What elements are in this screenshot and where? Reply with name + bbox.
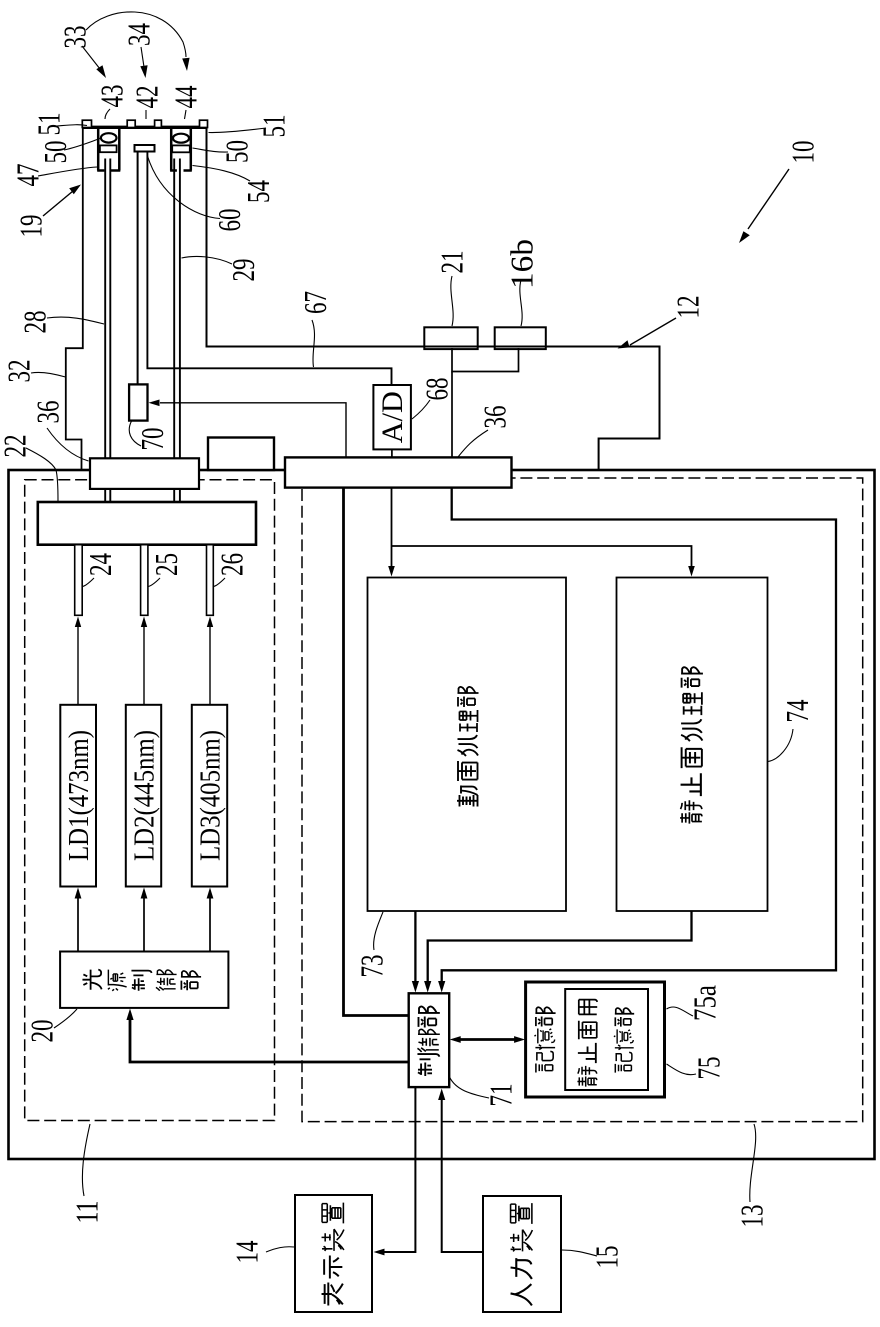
leader 74	[768, 729, 793, 762]
leader 42	[145, 110, 147, 119]
svg-text:44: 44	[168, 86, 204, 109]
leader 33 long arc	[86, 12, 186, 57]
wire: image sensor cable left line (sensor 60 to element 70)	[137, 152, 139, 386]
leader 26	[214, 578, 226, 587]
svg-text:51: 51	[256, 115, 292, 138]
tip face tab between 42 and 44	[155, 120, 162, 127]
fiber stub 25	[141, 545, 148, 616]
left illumination unit 47 walls	[97, 129, 120, 171]
box 36 left (light guide receiver)	[90, 458, 199, 489]
leader 22	[26, 448, 58, 501]
leader 13	[750, 1124, 756, 1202]
leader 14	[266, 1247, 294, 1252]
svg-text:71: 71	[483, 1084, 519, 1107]
svg-text:47: 47	[10, 164, 46, 187]
svg-text:19: 19	[13, 215, 49, 238]
wire: LD3 to fiber 26 (arrow up)	[209, 622, 211, 705]
wire: still processor 74 to controller 71 (arrow down)	[428, 911, 692, 987]
wire: input device 15 to controller 71 (arrow up)	[442, 1094, 483, 1252]
box 75a still image memory	[565, 989, 648, 1090]
svg-text:32: 32	[1, 360, 37, 383]
leader 60	[148, 156, 221, 219]
tip distal end face	[83, 126, 207, 129]
arrowhead 33 long	[182, 58, 189, 71]
wire: controller 71 to light source control 20 (arrow up)	[130, 1013, 409, 1062]
svg-text:14: 14	[229, 1241, 265, 1264]
leader 47	[38, 167, 97, 176]
text 記憶部 in box 75	[534, 1007, 555, 1072]
outer housing box (light source + processor)	[9, 470, 875, 1159]
svg-text:28: 28	[17, 311, 53, 334]
leader 29	[182, 256, 233, 264]
leader 75	[667, 1064, 697, 1075]
box 21 socket	[424, 327, 477, 349]
text 制御部 in box 71	[417, 1006, 439, 1075]
box 16b socket	[495, 327, 546, 349]
box 70 (detection element)	[129, 384, 147, 420]
box 22 (light combiner)	[38, 502, 256, 545]
wire: left light-guide fiber 28 (tip to combiner 22)	[105, 159, 110, 503]
wire: controller 71 to display 14 (arrow left)	[379, 1087, 415, 1252]
text 記憶部 in box 75a	[614, 1008, 634, 1073]
phosphor 54 left	[100, 145, 117, 152]
svg-text:68: 68	[419, 378, 455, 401]
svg-text:74: 74	[779, 700, 815, 723]
phosphor 54 right	[172, 145, 190, 152]
leader 50 right	[193, 148, 229, 152]
leader 11	[82, 1124, 90, 1196]
text 静止画処理部 in box 74	[680, 667, 703, 823]
tip face tab left corner	[82, 120, 91, 127]
svg-text:LD2(445nm): LD2(445nm)	[129, 730, 161, 861]
box LD1	[60, 705, 96, 887]
svg-text:20: 20	[24, 1020, 60, 1043]
svg-text:24: 24	[82, 553, 118, 576]
leader 21	[451, 276, 453, 326]
lens 50 right (ellipse)	[173, 134, 189, 143]
svg-text:LD1(473nm): LD1(473nm)	[63, 730, 95, 861]
box 68 A/D converter	[373, 385, 411, 449]
box 71 controller	[409, 993, 450, 1087]
leader 51 left	[57, 125, 87, 126]
box LD2	[126, 705, 161, 887]
arrowhead 19	[69, 185, 81, 195]
svg-text:A/D: A/D	[376, 391, 409, 443]
arrowhead 12	[618, 340, 630, 348]
box 15 input device	[483, 1196, 561, 1312]
wire: LD2 to fiber 25 (arrow up)	[143, 622, 145, 705]
svg-text:67: 67	[297, 291, 333, 314]
svg-text:51: 51	[31, 113, 67, 136]
box 12 connector housing outline	[207, 122, 660, 471]
wire: signal line 67 (sensor cable to A/D)	[147, 152, 391, 386]
leader 36 left	[47, 428, 89, 461]
text 入力装置 in box 15	[510, 1203, 532, 1305]
text 動画処理部 in box 73	[457, 687, 479, 807]
tip face tab between 43 and 42	[127, 120, 135, 127]
wire: video processor 73 to controller 71 (arrow down)	[414, 911, 416, 987]
svg-text:11: 11	[69, 1201, 105, 1224]
box 14 display device	[295, 1195, 372, 1312]
leader 50 left	[64, 139, 100, 151]
leader 73	[374, 912, 383, 950]
svg-text:12: 12	[670, 296, 706, 319]
leader 16b	[520, 280, 522, 326]
leader 51 right	[209, 128, 267, 133]
leader 43	[105, 109, 110, 119]
leader 33 short arrow	[82, 46, 100, 69]
fiber stub 24	[75, 545, 83, 616]
box LD3	[192, 705, 227, 887]
leader 25	[148, 578, 160, 587]
leader 19 arrow line	[43, 191, 73, 216]
svg-text:25: 25	[148, 553, 184, 576]
leader 67	[312, 320, 315, 367]
svg-text:22: 22	[0, 435, 33, 458]
wire: light source control 20 to LD2 (arrow up)	[143, 893, 145, 952]
svg-text:34: 34	[121, 23, 157, 46]
svg-text:15: 15	[589, 1246, 625, 1269]
svg-text:16b: 16b	[504, 239, 540, 289]
leader 28	[47, 317, 104, 324]
svg-text:10: 10	[785, 141, 821, 164]
wire: socket 21 line down to box 36	[451, 372, 453, 459]
leader 10 arrow line	[748, 169, 789, 229]
leader 54	[193, 166, 251, 182]
svg-text:29: 29	[225, 259, 261, 282]
right illumination unit walls	[170, 129, 192, 171]
leader 71	[450, 1077, 490, 1098]
leader 68	[412, 400, 430, 419]
wire: A/D output to receiver box 36	[391, 449, 393, 458]
lens 50 left (ellipse)	[101, 133, 117, 142]
box 20 light source control	[60, 952, 228, 1008]
svg-text:75: 75	[691, 1057, 727, 1080]
text 表示装置 in box 14	[322, 1203, 344, 1306]
wire: box 36 to element 70 (arrow left)	[160, 403, 346, 458]
wire: branch to still image processor 74 (arrow down)	[392, 546, 692, 571]
svg-text:70: 70	[134, 428, 170, 451]
leader 70	[129, 421, 141, 446]
leader 20	[54, 1009, 77, 1028]
leader 15	[562, 1250, 597, 1256]
scope connector block on housing	[208, 438, 274, 471]
svg-text:21: 21	[434, 251, 470, 274]
wire: box 36 to video processor 73 (arrow down)	[391, 487, 393, 571]
dashed box 13 (processor unit)	[302, 478, 863, 1122]
wire: controller 71 and memory 75 double arrow	[455, 1038, 520, 1041]
svg-text:36: 36	[30, 401, 66, 424]
wire: light source control 20 to LD1 (arrow up)	[77, 893, 79, 952]
leader 24	[83, 578, 95, 587]
box 75 memory	[526, 982, 665, 1097]
tip face tab right corner	[200, 120, 208, 127]
arrowhead 34	[140, 65, 147, 78]
leader 12 arrow line	[630, 318, 676, 345]
svg-text:73: 73	[354, 955, 390, 978]
svg-text:54: 54	[240, 180, 276, 203]
svg-text:LD3(405nm): LD3(405nm)	[195, 730, 227, 861]
dashed box 11 (light source unit)	[25, 480, 275, 1121]
fiber stub 26	[207, 545, 214, 616]
leader 32	[31, 372, 66, 377]
leader 34	[141, 47, 144, 67]
box 36 right (signal receiver)	[285, 457, 512, 487]
svg-text:50: 50	[37, 141, 73, 164]
svg-text:43: 43	[94, 85, 130, 108]
wire: light source control 20 to LD3 (arrow up)	[209, 893, 211, 952]
wire: box 36 right-side loop to controller 71 (arrow down)	[442, 487, 836, 987]
svg-text:42: 42	[129, 86, 165, 109]
leader 75a	[667, 1007, 694, 1016]
wire: connector notch under sockets 21/16b	[452, 348, 519, 372]
wire: LD1 to fiber 24 (arrow up)	[77, 622, 79, 705]
svg-text:60: 60	[211, 209, 247, 232]
wire: right light-guide fiber 29 (tip to combiner 22)	[174, 159, 180, 503]
scope left wall with grip step 32	[66, 121, 83, 470]
svg-text:36: 36	[477, 406, 513, 429]
leader 44	[185, 110, 187, 119]
box 73 video processing	[368, 578, 567, 912]
wire: box 36 left drop to controller 71 left side	[344, 487, 409, 1016]
svg-text:13: 13	[734, 1205, 770, 1228]
text 光源制御部 in box 20	[82, 970, 201, 991]
svg-text:26: 26	[214, 553, 250, 576]
arrowhead 33 short	[96, 65, 106, 78]
text 静止画用 in box 75a	[577, 1000, 597, 1087]
arrowhead 10	[739, 231, 750, 243]
box 74 still image processing	[617, 578, 768, 912]
image sensor 60 block behind window 42	[135, 145, 155, 152]
leader 36 right	[458, 430, 488, 457]
